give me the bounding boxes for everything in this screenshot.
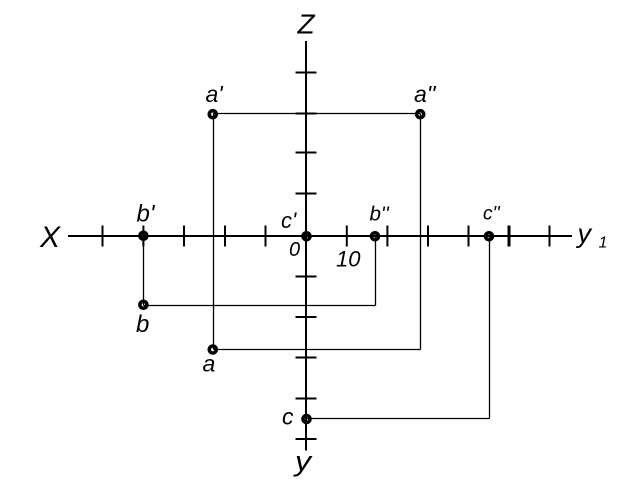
svg-text:c'': c'' bbox=[483, 203, 501, 224]
svg-text:y: y bbox=[576, 219, 593, 249]
wire c'' vertical projection line bbox=[489, 236, 491, 419]
wire a'-a'' horizontal projection line bbox=[213, 113, 421, 115]
node b marker bbox=[140, 301, 147, 308]
svg-text:10: 10 bbox=[336, 246, 361, 271]
node c'' marker bbox=[486, 233, 493, 240]
wire b' vertical projection line bbox=[143, 236, 145, 306]
wire b'' vertical projection line bbox=[375, 236, 377, 306]
node a' marker bbox=[209, 111, 216, 118]
Z axis line bbox=[305, 41, 307, 451]
axis ticks vertical bbox=[296, 73, 317, 440]
node c marker bbox=[303, 416, 310, 423]
svg-text:0: 0 bbox=[289, 239, 300, 261]
wire c horizontal projection line bbox=[306, 418, 490, 420]
wire a horizontal projection line bbox=[214, 349, 421, 351]
svg-text:1: 1 bbox=[599, 235, 608, 252]
svg-text:c': c' bbox=[281, 208, 297, 233]
node a'' marker bbox=[417, 111, 424, 118]
node b'' marker bbox=[372, 233, 379, 240]
svg-text:a'': a'' bbox=[414, 81, 437, 107]
wire b horizontal projection line bbox=[144, 305, 376, 307]
svg-text:b: b bbox=[136, 311, 149, 338]
node a marker bbox=[209, 346, 216, 353]
svg-text:b'': b'' bbox=[370, 202, 390, 225]
node c' origin marker bbox=[303, 233, 310, 240]
wire a'' vertical projection line bbox=[420, 114, 422, 350]
X axis line bbox=[68, 235, 572, 237]
svg-text:X: X bbox=[39, 221, 61, 254]
svg-text:a': a' bbox=[206, 81, 225, 107]
svg-text:Z: Z bbox=[297, 9, 316, 40]
svg-text:b': b' bbox=[137, 201, 156, 228]
axis ticks horizontal bbox=[103, 226, 550, 247]
wire a' vertical projection line bbox=[213, 114, 215, 350]
svg-text:y: y bbox=[293, 446, 313, 477]
svg-text:a: a bbox=[203, 351, 216, 377]
node b' marker bbox=[140, 232, 147, 239]
svg-text:c: c bbox=[282, 404, 294, 430]
